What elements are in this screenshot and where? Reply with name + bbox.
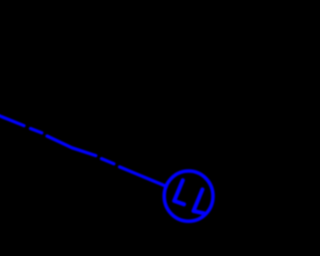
glyph L1: [174, 180, 184, 204]
glyph L2: [194, 190, 205, 214]
wire dash segment 1: [0, 116, 24, 126]
wire dash segment 2: [31, 129, 42, 133]
wire dash segment 3: [47, 136, 96, 156]
wire dash segment 4: [102, 159, 114, 164]
wire dash segment 5: [120, 167, 167, 187]
node circle: [164, 171, 213, 221]
